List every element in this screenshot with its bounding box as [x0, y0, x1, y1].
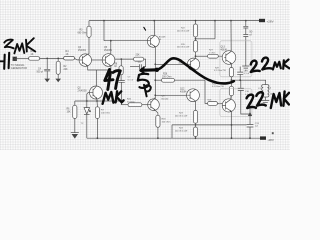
resistor R6 [67, 101, 77, 133]
svg-text:1K: 1K [114, 66, 117, 68]
resistor R23 [175, 110, 198, 123]
wire Q15 emitter to bottom rail [230, 111, 232, 138]
svg-text:100 Ohm: 100 Ohm [162, 121, 171, 123]
node R27 [195, 55, 197, 57]
svg-text:GENERATOR: GENERATOR [11, 66, 27, 70]
svg-text:Q8: Q8 [162, 95, 166, 97]
svg-text:240 Ohm 2W: 240 Ohm 2W [175, 115, 187, 117]
ground C18 [242, 66, 249, 70]
svg-text:15K: 15K [67, 112, 72, 114]
marker: digit 7 (47MK) [113, 71, 120, 89]
svg-text:L4: L4 [269, 88, 272, 90]
node lower driver base [154, 94, 156, 96]
capacitor C16 [238, 80, 251, 114]
svg-text:240 Ohm 2W: 240 Ohm 2W [177, 30, 189, 32]
wire mid bus y125 [172, 124, 247, 126]
svg-text:1K: 1K [66, 53, 69, 56]
resistor R29 vertical emitter [214, 64, 234, 81]
output node [231, 79, 233, 81]
resistor R15 [177, 37, 198, 58]
capacitor C13 [237, 67, 249, 82]
transistor Q12 [180, 88, 199, 101]
resistor R26 [155, 73, 205, 82]
svg-text:+28V: +28V [267, 19, 274, 23]
marker: letter M (22MK top) [273, 62, 281, 70]
transistor Q4 [78, 47, 92, 66]
capacitor C19 electrolytic [247, 106, 260, 140]
marker: letter K (2MK) [26, 38, 35, 51]
wire R1 to node [40, 57, 64, 59]
svg-text:TC: TC [81, 123, 84, 125]
svg-text:R2: R2 [64, 66, 68, 68]
svg-text:R8: R8 [114, 63, 118, 65]
transistor Q11 [179, 58, 200, 71]
svg-text:22K: 22K [64, 69, 69, 71]
marker: letter K (MK bottom) [283, 92, 289, 106]
marker: letter K (22MK top) [283, 60, 289, 69]
wire Q2 emitter [96, 99, 98, 101]
transistor Q5 [102, 47, 115, 66]
resistor R3 [78, 26, 92, 54]
capacitor C9 [130, 59, 146, 69]
resistor R18 [155, 110, 170, 139]
svg-text:0.1 uf: 0.1 uf [244, 73, 250, 75]
svg-text:-28V: -28V [268, 138, 274, 142]
svg-text:40594: 40594 [180, 91, 187, 93]
wire Q6 emitter long vertical [154, 47, 156, 99]
marker: digit 2 (2MK) [4, 40, 13, 49]
inductor L3 L4 [258, 80, 273, 100]
ground C4 [44, 79, 50, 83]
wire Q5 collector up to Q6 base line [110, 41, 112, 54]
svg-text:BD140: BD140 [162, 98, 169, 100]
wire top supply rail [89, 20, 260, 22]
svg-text:R25: R25 [127, 99, 132, 101]
transistor Q6 [147, 35, 166, 47]
wire Q15 collector [230, 96, 232, 100]
svg-text:1.0: 1.0 [138, 62, 142, 64]
svg-text:C13: C13 [244, 71, 249, 73]
resistor R8 [114, 59, 133, 105]
marker: letter M (2MK) [14, 43, 24, 53]
svg-text:R24: R24 [179, 128, 184, 130]
marker: long curve to output [158, 58, 234, 83]
wire Q5 right line [115, 58, 134, 60]
node dots on top rail [103, 20, 247, 22]
svg-text:R26: R26 [163, 73, 168, 75]
wire Q6 base line [104, 40, 147, 42]
svg-text:1uf: 1uf [255, 126, 258, 128]
node driver upper base [154, 63, 156, 65]
svg-text:Q12: Q12 [180, 88, 185, 90]
svg-text:Q4: Q4 [78, 47, 82, 49]
svg-text:40636: 40636 [221, 49, 228, 51]
ground R6 [71, 132, 79, 134]
resistor R2 [56, 58, 68, 78]
marker: letter M (MK bottom) [271, 93, 281, 108]
node C4 [46, 58, 48, 60]
transistor Q13 [221, 46, 236, 64]
wire Q4/Q5 link [92, 59, 103, 61]
marker: digit 2 first (22MK top) [251, 61, 260, 72]
node R26 line [154, 79, 156, 81]
svg-text:R6: R6 [67, 109, 71, 111]
wire Q6 collector to rail [153, 21, 155, 36]
diode D1 [81, 101, 91, 138]
svg-text:C4: C4 [38, 69, 42, 71]
wire Q12 emitter to R23 chain [194, 101, 196, 110]
svg-text:240 Ohm 2W: 240 Ohm 2W [177, 47, 189, 49]
wire to Q11 base [155, 63, 187, 65]
svg-text:240 Ohm: 240 Ohm [101, 112, 110, 114]
svg-text:R7: R7 [101, 109, 105, 111]
resistor R7 [95, 101, 110, 139]
marker: 5p annotation [138, 74, 149, 88]
resistor R1 [29, 57, 40, 61]
transistor Q8 [148, 95, 169, 111]
svg-text:200 Ohm: 200 Ohm [162, 76, 172, 78]
svg-text:R15: R15 [181, 44, 186, 46]
svg-text:Q13: Q13 [221, 46, 226, 48]
marker: digit 2 second (22MK top) [262, 58, 272, 70]
wire R8 bottom to R25 [120, 101, 122, 105]
svg-text:L3: L3 [258, 88, 261, 90]
svg-text:1 Ohm: 1 Ohm [209, 52, 216, 54]
svg-text:R29: R29 [215, 67, 220, 69]
ground L [261, 101, 269, 105]
wire input [17, 57, 29, 59]
marker: hand-drawn capacitor at input [0, 60, 3, 62]
marker: digit 4 (47MK) [105, 70, 113, 90]
svg-text:uf: uf [249, 33, 252, 37]
svg-text:R23: R23 [179, 113, 184, 115]
resistor R22 [177, 21, 198, 37]
svg-text:C7: C7 [128, 77, 132, 79]
wire output node line [231, 79, 266, 81]
wire rail dropper [103, 21, 105, 41]
svg-text:R22: R22 [181, 28, 186, 30]
node R2 [57, 58, 59, 60]
wire Q2 base to diode branch [87, 92, 89, 101]
svg-text:R18: R18 [162, 118, 167, 120]
wire rail stub x215 [214, 21, 216, 39]
wire emitters to Q2 collector [96, 70, 98, 86]
svg-text:Q2: Q2 [78, 87, 82, 89]
heat sink box Q13 [220, 41, 252, 77]
svg-text:1K: 1K [31, 53, 34, 56]
speck near -28V label [272, 132, 274, 134]
resistor R25 [121, 99, 147, 107]
svg-text:500 pf: 500 pf [37, 72, 44, 74]
wire rail left corner to R3 [88, 21, 90, 27]
marker: digit 2 first (22 bottom) [247, 95, 256, 108]
ground R2 [55, 79, 61, 83]
input terminal J1 [13, 57, 17, 61]
marker: letter M (47MK) [103, 92, 114, 104]
wire to Q12 base [155, 94, 187, 96]
svg-text:680 Ohm: 680 Ohm [78, 33, 88, 35]
wire Q13 collector to rail [230, 21, 232, 52]
svg-text:50 Ohm: 50 Ohm [127, 101, 135, 103]
resistor R28 [205, 80, 222, 105]
capacitor C4 [37, 58, 51, 78]
node bias mid [195, 38, 197, 40]
pen tick [144, 27, 146, 30]
resistor R4 [64, 57, 75, 61]
wire R4 to Q4 base [75, 58, 80, 60]
svg-text:0.1 Ohm 2W: 0.1 Ohm 2W [214, 70, 226, 72]
svg-text:Q5: Q5 [104, 47, 108, 49]
marker: arrow shaft at 5p [141, 68, 157, 72]
svg-text:R27: R27 [209, 50, 214, 52]
transistor Q2 [78, 86, 103, 99]
transistor Q15 [222, 99, 235, 112]
wire Q4 emitter down and right [88, 66, 97, 70]
resistor R27 [196, 50, 225, 59]
svg-text:0.1 Ohm 2W: 0.1 Ohm 2W [212, 86, 224, 88]
resistor R31 vertical emitter [212, 80, 234, 99]
terminal +28V [259, 19, 265, 22]
capacitor C18 rail bypass [243, 21, 252, 66]
terminal -28V [260, 136, 266, 139]
marker: letter K (47MK) [116, 91, 124, 102]
emitter bias bus [75, 100, 122, 102]
node mid bus [195, 123, 197, 127]
wire bottom supply rail [87, 137, 260, 139]
wire Q8 collector [154, 98, 156, 100]
svg-text:240 Ohm 2W: 240 Ohm 2W [175, 130, 187, 132]
marker: digit 2 second (22 bottom) [256, 92, 265, 105]
svg-text:C16: C16 [245, 91, 250, 93]
resistor R10 [134, 54, 144, 61]
svg-text:2N4061: 2N4061 [78, 50, 87, 52]
svg-text:40: 40 [159, 39, 162, 41]
svg-text:R3: R3 [80, 30, 84, 32]
svg-text:2N4058: 2N4058 [78, 90, 88, 92]
heat sink box Q15 [220, 89, 252, 117]
node R8 [120, 58, 122, 60]
wire Q5 emitter down [97, 66, 111, 70]
wire bias tap [196, 38, 216, 40]
svg-text:C19: C19 [255, 123, 260, 125]
svg-text:0.1 uf: 0.1 uf [128, 80, 134, 82]
svg-text:2N4061: 2N4061 [104, 50, 113, 52]
svg-text:22K: 22K [136, 54, 141, 56]
resistor R24 [175, 127, 198, 139]
